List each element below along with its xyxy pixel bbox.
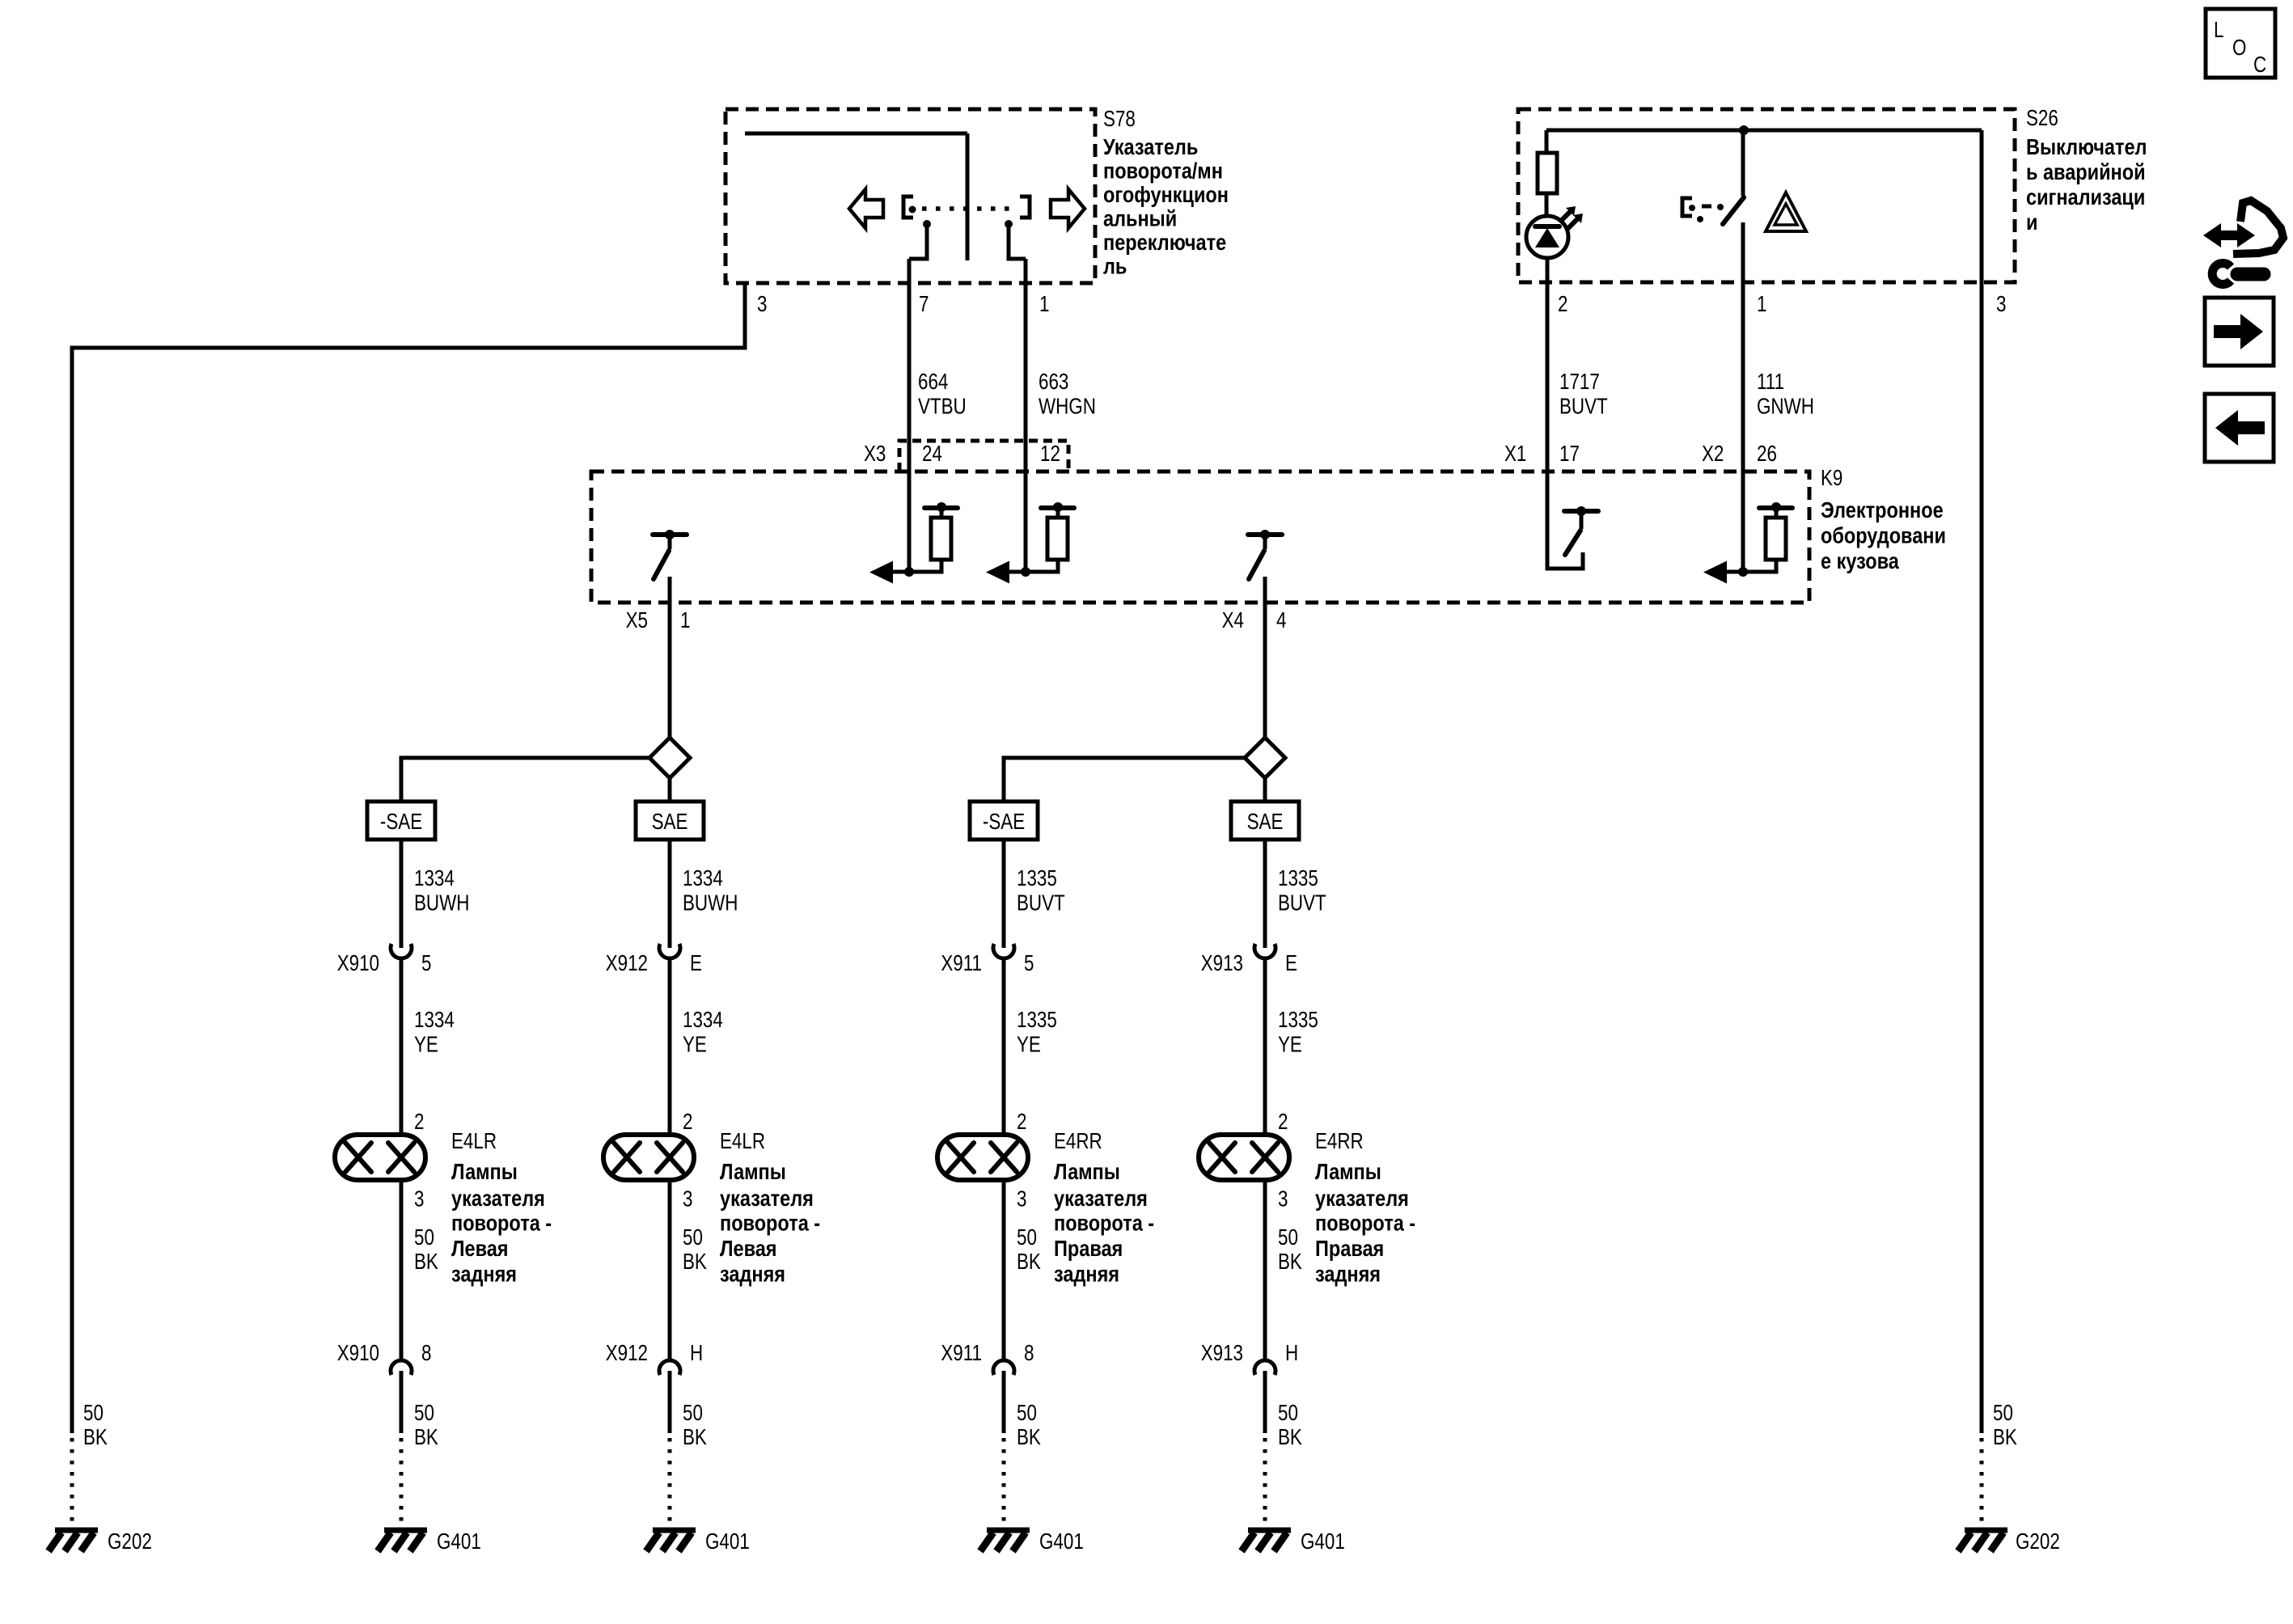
wire 663 WHGN pin1 to K9 X3-12 <box>1024 259 1028 572</box>
svg-text:50: 50 <box>683 1225 703 1250</box>
connector X911 pin 8 <box>993 1360 1014 1375</box>
svg-text:BUWH: BUWH <box>683 890 738 916</box>
arrow right-turn (hollow) <box>1051 189 1085 228</box>
svg-text:L: L <box>2214 18 2223 43</box>
wire 1335 YE <box>1002 958 1006 1135</box>
svg-text:SAE: SAE <box>652 810 688 835</box>
svg-text:ль: ль <box>1103 255 1127 279</box>
svg-text:BK: BK <box>1017 1250 1041 1275</box>
svg-text:5: 5 <box>1024 951 1034 976</box>
svg-text:E4RR: E4RR <box>1315 1129 1364 1154</box>
svg-text:X912: X912 <box>606 1341 648 1366</box>
switch S26 dashed box <box>1518 109 2015 282</box>
svg-text:WHGN: WHGN <box>1039 394 1096 419</box>
svg-text:указателя: указателя <box>1054 1186 1148 1211</box>
splice diamond left pair <box>649 738 690 778</box>
connector X912 pin H <box>659 1360 680 1375</box>
svg-text:2: 2 <box>1278 1110 1288 1135</box>
svg-text:GNWH: GNWH <box>1757 394 1814 419</box>
connector X910 pin 8 <box>391 1360 412 1375</box>
svg-text:2: 2 <box>1558 292 1567 317</box>
right-turn arrow box <box>2205 298 2274 366</box>
svg-text:YE: YE <box>1278 1032 1302 1057</box>
svg-text:BK: BK <box>1278 1425 1302 1450</box>
svg-text:50: 50 <box>414 1401 434 1426</box>
svg-text:5: 5 <box>421 951 431 976</box>
svg-text:SAE: SAE <box>1247 810 1284 835</box>
svg-text:2: 2 <box>683 1110 692 1135</box>
left-turn arrow box <box>2205 394 2274 462</box>
svg-text:3: 3 <box>683 1186 692 1212</box>
wire K9 X5-1 to splice <box>668 577 672 738</box>
wire 50 BK to ground <box>1002 1371 1006 1433</box>
svg-text:1335: 1335 <box>1278 866 1318 891</box>
svg-text:указателя: указателя <box>720 1186 814 1211</box>
svg-text:X911: X911 <box>941 1341 982 1366</box>
svg-text:50: 50 <box>83 1401 104 1426</box>
svg-text:Лампы: Лампы <box>720 1160 786 1184</box>
svg-text:X910: X910 <box>337 1341 379 1366</box>
svg-text:-SAE: -SAE <box>380 810 422 835</box>
wire splice to -SAE 1 <box>401 758 649 801</box>
wire lamp to connector X912 pin H <box>668 1180 672 1360</box>
switch S78 dashed box <box>726 109 1095 283</box>
ground G401 COL2 <box>646 1530 696 1551</box>
svg-text:BUVT: BUVT <box>1559 394 1608 419</box>
turn-signal lever icon <box>2203 201 2283 285</box>
svg-text:X912: X912 <box>606 951 648 976</box>
svg-text:2: 2 <box>1017 1110 1026 1135</box>
wire 1334 BUWH X910 column <box>400 839 404 948</box>
svg-text:огофункцион: огофункцион <box>1103 183 1229 207</box>
svg-text:1717: 1717 <box>1559 370 1600 395</box>
svg-text:E4LR: E4LR <box>451 1129 497 1154</box>
svg-text:C: C <box>2253 53 2266 78</box>
wire splice to -SAE 3 <box>1004 758 1245 801</box>
switch K9 right output driver (X4) <box>1248 530 1282 579</box>
svg-text:1334: 1334 <box>414 866 455 891</box>
svg-text:BK: BK <box>414 1250 438 1275</box>
wire splice to SAE 4 <box>1263 778 1267 801</box>
label S26 description <box>2026 135 2147 235</box>
svg-text:Правая: Правая <box>1054 1237 1123 1261</box>
svg-text:указателя: указателя <box>1315 1186 1409 1211</box>
svg-text:1: 1 <box>680 608 690 633</box>
svg-text:50: 50 <box>414 1225 434 1250</box>
svg-text:YE: YE <box>414 1032 438 1057</box>
svg-text:8: 8 <box>421 1341 431 1366</box>
svg-text:задняя: задняя <box>1054 1262 1119 1287</box>
lamp E4RR <box>1199 1135 1289 1180</box>
svg-text:3: 3 <box>1996 292 2006 317</box>
wire K9 X4-4 to splice <box>1263 577 1267 738</box>
svg-text:Правая: Правая <box>1315 1237 1384 1261</box>
wire S78 internal top bus <box>745 132 967 136</box>
svg-text:задняя: задняя <box>720 1262 785 1287</box>
svg-text:G202: G202 <box>2016 1529 2060 1554</box>
wire S26 internal top bus <box>1546 129 1982 133</box>
wire 1334 YE <box>400 958 404 1135</box>
svg-text:E4RR: E4RR <box>1054 1129 1102 1154</box>
svg-text:50: 50 <box>1017 1401 1037 1426</box>
svg-text:X4: X4 <box>1222 608 1244 633</box>
wire S78 pin3 to ground G202 left <box>72 283 745 1433</box>
svg-text:X2: X2 <box>1702 442 1724 467</box>
connector X910 pin 5 <box>391 944 412 958</box>
svg-text:3: 3 <box>1278 1186 1288 1212</box>
svg-text:111: 111 <box>1757 370 1784 395</box>
svg-text:X910: X910 <box>337 951 379 976</box>
wire 50 BK to ground <box>1263 1371 1267 1433</box>
svg-text:поворота -: поворота - <box>720 1212 820 1236</box>
svg-text:7: 7 <box>919 292 929 317</box>
svg-text:X913: X913 <box>1201 951 1243 976</box>
switch K9 hazard input (X1-17) <box>1564 506 1598 555</box>
svg-text:Электронное: Электронное <box>1821 498 1944 522</box>
switch S78 left fixed contact bracket <box>903 197 913 218</box>
svg-text:50: 50 <box>1278 1401 1298 1426</box>
svg-text:663: 663 <box>1039 370 1068 395</box>
svg-text:X5: X5 <box>626 608 648 633</box>
svg-text:BUVT: BUVT <box>1278 890 1326 916</box>
svg-text:-SAE: -SAE <box>983 810 1025 835</box>
svg-text:Указатель: Указатель <box>1103 135 1198 159</box>
svg-text:664: 664 <box>918 370 948 395</box>
ground G401 COL3 <box>980 1530 1030 1551</box>
arrow left-turn (hollow) <box>849 189 883 228</box>
svg-text:50: 50 <box>1993 1401 2013 1426</box>
svg-text:2: 2 <box>414 1110 424 1135</box>
svg-text:Лампы: Лампы <box>1315 1160 1381 1184</box>
svg-text:YE: YE <box>683 1032 707 1057</box>
svg-text:и: и <box>2026 210 2037 235</box>
svg-text:1334: 1334 <box>683 866 723 891</box>
connector -SAE box 1 <box>367 801 435 839</box>
svg-text:BK: BK <box>83 1425 108 1450</box>
svg-text:1335: 1335 <box>1278 1008 1318 1033</box>
wire 1334 BUWH X912 column <box>668 839 672 948</box>
svg-text:1335: 1335 <box>1017 1008 1057 1033</box>
svg-text:ь аварийной: ь аварийной <box>2026 160 2146 184</box>
svg-text:BK: BK <box>1993 1425 2017 1450</box>
switch K9 left output driver (X5) <box>653 530 687 579</box>
connector X3 dashed box <box>899 441 1068 472</box>
svg-text:4: 4 <box>1276 608 1286 633</box>
svg-text:X911: X911 <box>941 951 982 976</box>
wire 1335 BUVT X911 column <box>1002 839 1006 948</box>
svg-text:BK: BK <box>414 1425 438 1450</box>
ground G202 left <box>49 1530 98 1551</box>
svg-text:Выключател: Выключател <box>2026 135 2147 159</box>
svg-text:O: O <box>2232 36 2246 61</box>
module K9 dashed box <box>591 472 1809 603</box>
svg-text:H: H <box>1285 1341 1298 1366</box>
switch S26 hazard contact <box>1741 130 1745 196</box>
splice diamond right pair <box>1245 738 1285 778</box>
svg-text:BUWH: BUWH <box>414 890 469 916</box>
wire S26 pin3 to ground G202 right <box>1980 130 1984 1433</box>
svg-text:Лампы: Лампы <box>451 1160 518 1184</box>
wire 1334 YE <box>668 958 672 1135</box>
svg-text:1334: 1334 <box>414 1008 455 1033</box>
svg-text:YE: YE <box>1017 1032 1041 1057</box>
svg-text:задняя: задняя <box>1315 1262 1381 1287</box>
svg-text:17: 17 <box>1559 442 1580 467</box>
wire 664 VTBU pin7 to K9 X3-24 <box>907 259 912 572</box>
svg-text:24: 24 <box>922 442 942 467</box>
svg-text:G401: G401 <box>1039 1529 1084 1554</box>
ground G401 COL4 <box>1242 1530 1291 1551</box>
lamp E4RR <box>937 1135 1028 1180</box>
svg-text:E4LR: E4LR <box>720 1129 765 1154</box>
connector X911 pin 5 <box>993 944 1014 958</box>
svg-text:50: 50 <box>1017 1225 1037 1250</box>
svg-text:альный: альный <box>1103 207 1177 231</box>
svg-text:K9: K9 <box>1821 466 1842 491</box>
wire splice to SAE 2 <box>668 778 672 801</box>
hazard warning triangle symbol <box>1766 192 1806 231</box>
svg-text:E: E <box>690 951 702 976</box>
wire LED cathode to pin 2 <box>1547 258 1583 569</box>
label K9 description <box>1821 498 1946 573</box>
svg-text:сигнализаци: сигнализаци <box>2026 185 2145 209</box>
svg-text:50: 50 <box>1278 1225 1298 1250</box>
LED S26 indicator lamp <box>1526 216 1568 258</box>
svg-text:E: E <box>1285 951 1297 976</box>
lamp E4LR <box>335 1135 425 1180</box>
switch S78 right fixed contact bracket <box>1020 197 1030 218</box>
wire S78 common pole <box>966 133 970 260</box>
switch S78 left movable pole <box>923 220 931 228</box>
svg-text:12: 12 <box>1040 442 1060 467</box>
switch S78 dotted actuating line <box>922 206 1014 211</box>
svg-text:3: 3 <box>757 292 767 317</box>
label S78 description <box>1103 135 1229 279</box>
wire 50 BK to ground <box>668 1371 672 1433</box>
svg-text:поворота -: поворота - <box>1054 1212 1154 1236</box>
switch S78 right movable pole <box>1005 220 1013 228</box>
svg-text:G202: G202 <box>108 1529 152 1554</box>
svg-text:BK: BK <box>683 1250 707 1275</box>
wire 1335 BUVT X913 column <box>1263 839 1267 948</box>
svg-text:G401: G401 <box>437 1529 481 1554</box>
svg-text:оборудовани: оборудовани <box>1821 524 1946 548</box>
svg-text:3: 3 <box>414 1186 424 1212</box>
svg-text:BK: BK <box>1017 1425 1041 1450</box>
switch S26 fixed contact bracket <box>1682 198 1692 216</box>
svg-text:Левая: Левая <box>720 1237 777 1261</box>
lamp E4LR <box>603 1135 694 1180</box>
resistor K9 input 24 with arrow <box>869 502 958 584</box>
svg-text:S26: S26 <box>2026 106 2058 131</box>
wire lamp to connector X910 pin 8 <box>400 1180 404 1360</box>
svg-text:X3: X3 <box>864 442 886 467</box>
LOC legend box <box>2206 9 2275 78</box>
ground G401 COL1 <box>378 1530 427 1551</box>
wire switch to pin 1 <box>1741 222 1745 572</box>
svg-text:1: 1 <box>1757 292 1766 317</box>
svg-text:8: 8 <box>1024 1341 1034 1366</box>
svg-text:3: 3 <box>1017 1186 1026 1212</box>
svg-text:Левая: Левая <box>451 1237 509 1261</box>
svg-text:G401: G401 <box>705 1529 750 1554</box>
svg-text:S78: S78 <box>1103 107 1136 132</box>
svg-text:поворота -: поворота - <box>1315 1212 1415 1236</box>
svg-text:26: 26 <box>1757 442 1777 467</box>
svg-text:1334: 1334 <box>683 1008 723 1033</box>
svg-text:1: 1 <box>1039 292 1049 317</box>
ground G202 right <box>1958 1530 2007 1551</box>
svg-text:X1: X1 <box>1504 442 1526 467</box>
wire lamp to connector X913 pin H <box>1263 1180 1267 1360</box>
connector SAE box 2 <box>636 801 704 839</box>
svg-text:задняя: задняя <box>451 1262 517 1287</box>
svg-text:G401: G401 <box>1301 1529 1345 1554</box>
wire 50 BK to ground <box>400 1371 404 1433</box>
connector SAE box 4 <box>1231 801 1299 839</box>
wire lamp to connector X911 pin 8 <box>1002 1180 1006 1360</box>
connector X913 pin H <box>1254 1360 1276 1375</box>
svg-text:е кузова: е кузова <box>1821 549 1899 573</box>
node S26 bus junction <box>1739 125 1749 135</box>
svg-text:указателя: указателя <box>451 1186 545 1211</box>
svg-text:BK: BK <box>683 1425 707 1450</box>
svg-text:поворота -: поворота - <box>451 1212 552 1236</box>
connector X912 pin E <box>659 944 680 958</box>
wire 1335 YE <box>1263 958 1267 1135</box>
svg-text:переключате: переключате <box>1103 230 1226 255</box>
svg-text:50: 50 <box>683 1401 703 1426</box>
svg-text:BK: BK <box>1278 1250 1302 1275</box>
connector -SAE box 3 <box>970 801 1038 839</box>
svg-text:Лампы: Лампы <box>1054 1160 1120 1184</box>
svg-text:BUVT: BUVT <box>1017 890 1065 916</box>
svg-text:X913: X913 <box>1201 1341 1243 1366</box>
svg-text:VTBU: VTBU <box>918 394 967 419</box>
svg-text:поворота/мн: поворота/мн <box>1103 159 1223 184</box>
resistor K9 input 12 with arrow <box>986 502 1074 584</box>
resistor S26 indicator <box>1545 130 1549 153</box>
svg-text:H: H <box>690 1341 703 1366</box>
connector X913 pin E <box>1254 944 1276 958</box>
resistor K9 input 26 with arrow <box>1703 502 1792 584</box>
svg-text:1335: 1335 <box>1017 866 1057 891</box>
